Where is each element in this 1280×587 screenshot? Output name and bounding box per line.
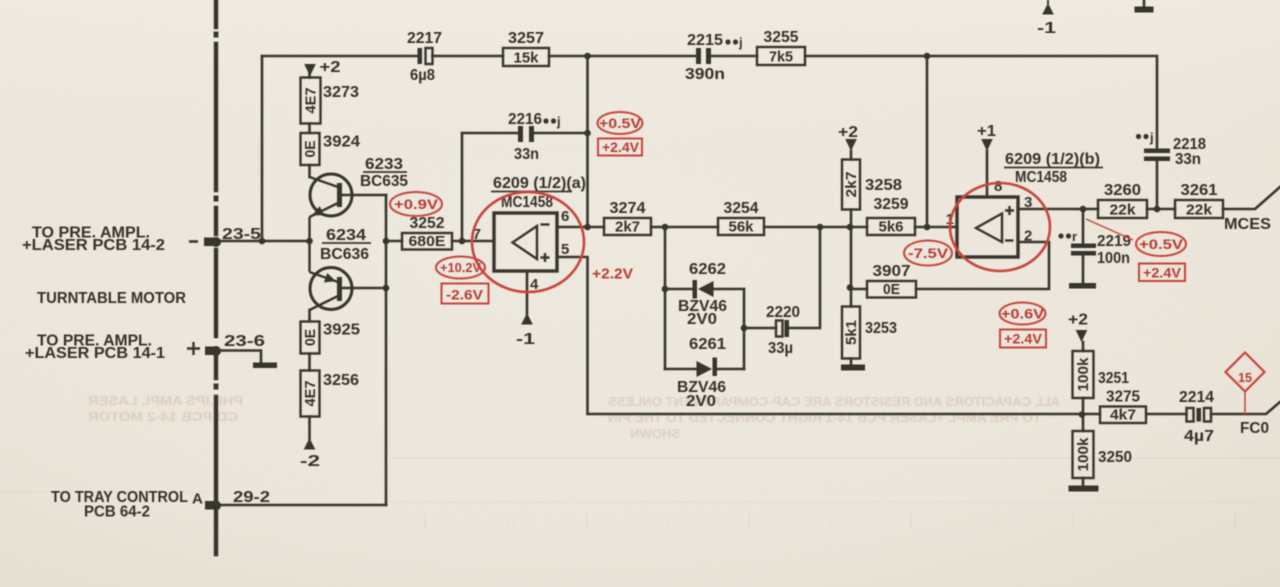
svg-text:22k: 22k	[1186, 202, 1213, 219]
svg-text:SHOWN: SHOWN	[630, 426, 680, 441]
svg-text:4k7: 4k7	[1110, 407, 1136, 424]
resistor 3256 4E7	[301, 371, 360, 417]
svg-text:+2.4V: +2.4V	[602, 139, 640, 155]
svg-text:5k6: 5k6	[879, 219, 904, 236]
svg-text:23-6: 23-6	[224, 333, 265, 350]
transistor 6234 BC636	[310, 241, 353, 310]
wire 0E stub	[851, 288, 867, 291]
wire 2219 stems	[1082, 209, 1085, 283]
resistor 3273 4E7	[301, 78, 360, 124]
capacitor 2214 4u7	[1179, 389, 1214, 445]
svg-text:3925: 3925	[323, 322, 360, 339]
svg-text:3260: 3260	[1104, 182, 1141, 199]
wire diode loop right	[743, 289, 746, 369]
svg-text:2219: 2219	[1097, 233, 1131, 250]
svg-text:3250: 3250	[1098, 449, 1132, 466]
svg-text:0E: 0E	[302, 141, 319, 158]
svg-text:3253: 3253	[865, 320, 897, 337]
wire	[805, 56, 1157, 149]
svg-text:390n: 390n	[685, 66, 725, 83]
wire 3258 stems	[850, 151, 853, 227]
test point diamond 15	[1226, 353, 1265, 392]
svg-text:12: 12	[666, 517, 678, 529]
svg-text:6234: 6234	[326, 227, 366, 244]
svg-text:2V0: 2V0	[686, 393, 716, 410]
capacitor 2217 6u8	[407, 30, 442, 84]
resistor 3253 5k1	[842, 307, 897, 359]
resistor 3255 7k5	[757, 29, 805, 66]
resistor 3924 0E	[301, 133, 361, 165]
faint sheet frame lines	[0, 458, 1280, 528]
resistor 3259 5k6	[867, 196, 915, 236]
svg-text:3: 3	[1024, 194, 1032, 211]
resistor 3254 56k	[718, 200, 764, 236]
wire base stub 6234	[342, 287, 386, 290]
op-amp U6209a MC1458	[473, 175, 586, 293]
svg-text:+0.9V: +0.9V	[394, 196, 439, 212]
wire 2220 tap	[744, 327, 776, 330]
resistor 3250 100k	[1073, 431, 1133, 478]
wire diode loop bottom	[665, 368, 697, 371]
voltage +0.9V	[390, 192, 442, 216]
wire	[714, 288, 744, 291]
red leader to +0.5V	[1086, 219, 1133, 240]
svg-text:5k1: 5k1	[843, 320, 860, 345]
svg-text:-2.6V: -2.6V	[446, 287, 484, 303]
svg-text:8: 8	[994, 178, 1002, 195]
resistor 3257 15k	[503, 30, 549, 67]
svg-text:3274: 3274	[610, 200, 646, 217]
svg-text:+0.6V: +0.6V	[1001, 306, 1045, 322]
resistor 3261 22k	[1175, 182, 1223, 219]
svg-text:6: 6	[561, 208, 569, 225]
ground at 23-6	[253, 363, 277, 369]
svg-text:BC635: BC635	[360, 173, 408, 190]
svg-text:6262: 6262	[689, 261, 726, 278]
svg-text:33n: 33n	[1175, 151, 1201, 168]
resistor 3258 2k7	[842, 160, 902, 210]
power -2 below 3256	[304, 438, 316, 450]
svg-text:680E: 680E	[409, 233, 446, 250]
wire 2216 feedback loop	[462, 133, 518, 241]
svg-text:+2: +2	[1068, 312, 1088, 329]
wire main right 1	[651, 226, 718, 229]
wire	[534, 132, 588, 135]
voltage +0.6V	[1000, 303, 1046, 325]
svg-text:0E: 0E	[302, 329, 319, 346]
svg-text:33n: 33n	[514, 146, 539, 163]
diode 6261 BZV46 2V0	[677, 336, 726, 410]
wire pin3 output	[1018, 208, 1098, 211]
svg-text:2k7: 2k7	[843, 172, 860, 198]
svg-text:2216: 2216	[508, 111, 542, 128]
power -1 top right	[1047, 0, 1049, 4]
svg-text:15: 15	[1238, 370, 1252, 385]
resistor 3260 22k	[1098, 182, 1147, 219]
resistor 3274 2k7	[604, 200, 651, 236]
ground top right	[1135, 7, 1154, 13]
wire 680E to pin7	[452, 240, 494, 243]
svg-text:+2: +2	[838, 124, 858, 141]
wire base vertical	[385, 195, 388, 505]
wire motor line from 23-5	[220, 240, 310, 243]
wire	[1147, 208, 1175, 211]
svg-text:3259: 3259	[874, 196, 909, 213]
svg-text:j: j	[1149, 130, 1154, 145]
svg-text:j: j	[738, 35, 743, 50]
power -1 below op-amp a	[521, 313, 533, 325]
svg-text:BC636: BC636	[320, 246, 369, 263]
svg-text:FC0: FC0	[1240, 420, 1269, 437]
svg-text:A: A	[192, 491, 203, 508]
wire 3273 stems	[308, 72, 311, 177]
svg-text:0E: 0E	[883, 281, 900, 298]
terminal 23-6	[205, 346, 221, 356]
svg-text:100k: 100k	[1075, 357, 1092, 392]
wire diode loop top	[665, 288, 692, 291]
svg-text:+2: +2	[320, 59, 341, 76]
svg-text:6209 (1/2)(b): 6209 (1/2)(b)	[1005, 151, 1100, 168]
wire	[717, 368, 744, 371]
capacitor 2218 33n	[1136, 130, 1206, 168]
svg-text:2: 2	[1024, 228, 1032, 245]
wire MCES end	[1223, 187, 1280, 209]
terminal 23-5	[204, 237, 221, 247]
svg-text:7k5: 7k5	[769, 49, 793, 66]
wire main right 2	[764, 226, 867, 229]
svg-text:3275: 3275	[1106, 389, 1140, 406]
op-amp U6209b MC1458	[946, 151, 1103, 257]
svg-text:PHILIPS AMPL LASER: PHILIPS AMPL LASER	[87, 393, 243, 408]
svg-text:+2.2V: +2.2V	[592, 266, 633, 283]
voltage +10.2V	[436, 257, 485, 279]
svg-text:4E7: 4E7	[302, 381, 319, 407]
svg-text:23-5: 23-5	[222, 226, 261, 243]
svg-text:3273: 3273	[323, 84, 359, 101]
wire FC0 end	[1211, 402, 1280, 414]
wire top feedback line	[262, 55, 418, 58]
wire	[549, 55, 588, 58]
svg-text:4µ7: 4µ7	[1184, 428, 1214, 445]
svg-text:+2.4V: +2.4V	[1143, 265, 1182, 281]
svg-text:+0.5V: +0.5V	[599, 115, 642, 131]
svg-text:ALL CAPACITORS AND RESISTORS A: ALL CAPACITORS AND RESISTORS ARE CAP-COM…	[608, 394, 1060, 409]
svg-text:3258: 3258	[865, 177, 902, 194]
svg-text:r: r	[1072, 229, 1077, 244]
svg-text:2215: 2215	[687, 32, 723, 49]
svg-text:+LASER PCB 14-1: +LASER PCB 14-1	[25, 345, 165, 362]
wire left vertical	[261, 56, 264, 241]
capacitor 2216 33n	[508, 111, 561, 163]
wire main right 3	[915, 226, 957, 229]
svg-text:3251: 3251	[1098, 370, 1129, 387]
voltage +2.4V top	[598, 139, 642, 156]
voltage -2.6V	[442, 284, 489, 304]
svg-text:j: j	[556, 114, 561, 129]
svg-text:15: 15	[1152, 517, 1164, 529]
svg-text:22k: 22k	[1110, 202, 1137, 219]
red circle around op-amp a	[472, 192, 584, 292]
svg-text:3257: 3257	[508, 30, 544, 47]
svg-text:6µ8: 6µ8	[410, 67, 435, 84]
svg-text:6209 (1/2)(a): 6209 (1/2)(a)	[493, 175, 586, 192]
svg-text:3261: 3261	[1181, 182, 1218, 199]
svg-text:11: 11	[504, 517, 516, 529]
capacitor 2219 100n	[1058, 229, 1131, 267]
svg-text:3255: 3255	[764, 29, 799, 46]
wire pin4 stem	[526, 271, 529, 314]
svg-text:3924: 3924	[323, 134, 360, 151]
wire 2220 to main	[789, 227, 820, 328]
svg-text:29-2: 29-2	[233, 489, 270, 506]
svg-text:TURNTABLE MOTOR: TURNTABLE MOTOR	[37, 290, 186, 307]
wire 5k1 branch	[850, 227, 853, 365]
svg-text:-2: -2	[300, 453, 320, 470]
resistor 3251 100k	[1073, 351, 1130, 398]
ground below 3250	[1069, 486, 1099, 492]
resistor 3925 0E	[301, 322, 361, 354]
svg-text:100n: 100n	[1097, 250, 1130, 267]
wire pin6 to 3274	[557, 226, 604, 229]
wire 0E to pin2	[916, 242, 1049, 289]
voltage +2.4V right	[1139, 264, 1185, 282]
capacitor 2220 33u	[766, 304, 800, 357]
wire pin1 vertical	[926, 56, 929, 227]
power +2 top of 3273	[304, 64, 316, 76]
svg-text:2214: 2214	[1179, 389, 1214, 406]
svg-text:2217: 2217	[407, 30, 442, 47]
svg-text:6261: 6261	[689, 336, 726, 353]
svg-text:56k: 56k	[729, 219, 755, 236]
wire base node to 680E	[386, 240, 402, 243]
svg-text:MC1458: MC1458	[1015, 169, 1067, 186]
wire output node vertical	[586, 56, 589, 227]
svg-text:2k7: 2k7	[615, 219, 640, 236]
svg-text:6233: 6233	[365, 156, 403, 173]
resistor 3275 4k7	[1100, 389, 1146, 424]
svg-text:TO PRE AMPL +LASER PCB 14-1 RI: TO PRE AMPL +LASER PCB 14-1 RIGHT CONNEC…	[608, 410, 1041, 425]
wire base stub 6233	[342, 194, 386, 197]
svg-text:+1: +1	[977, 123, 996, 140]
voltage +0.5V right	[1136, 232, 1186, 256]
voltage +0.5V top	[598, 112, 643, 134]
diode 6262 BZV46 2V0	[678, 261, 727, 328]
wire 29-2 tray line	[220, 504, 386, 507]
svg-text:15k: 15k	[514, 50, 540, 67]
wire diode branch vertical	[664, 227, 667, 369]
svg-text:MC1458: MC1458	[501, 194, 553, 211]
ground below 5k1	[841, 365, 865, 371]
resistor 3907 0E	[867, 263, 916, 298]
svg-text:2V0: 2V0	[687, 311, 717, 328]
wire pin8 stem	[986, 151, 989, 197]
wire 2218 lower stem	[1156, 161, 1159, 209]
svg-text:-1: -1	[1037, 20, 1056, 37]
wire	[711, 55, 757, 58]
capacitor 2215 390n	[685, 32, 743, 83]
svg-text:+LASER PCB 14-2: +LASER PCB 14-2	[22, 237, 165, 254]
ground below 2219	[1069, 283, 1096, 289]
svg-text:33µ: 33µ	[768, 340, 793, 357]
voltage -7.5V	[904, 241, 952, 266]
svg-text:5: 5	[561, 241, 569, 258]
wire	[433, 55, 504, 58]
svg-text:-7.5V: -7.5V	[908, 245, 949, 261]
wire pin5 down to FC0 line	[557, 257, 1100, 414]
svg-text:+10.2V: +10.2V	[440, 261, 482, 275]
terminal 29-2 A	[205, 501, 221, 511]
wire top-right ground stem	[1143, 0, 1146, 7]
board edge dash-dot line	[214, 0, 218, 554]
svg-text:+2.4V: +2.4V	[1004, 331, 1043, 347]
resistor 3252 680E	[402, 215, 452, 250]
svg-text:2220: 2220	[766, 304, 800, 321]
svg-text:PCB 64-2: PCB 64-2	[84, 504, 150, 521]
svg-text:14: 14	[989, 517, 1002, 529]
svg-text:100k: 100k	[1075, 437, 1092, 472]
voltage +2.4V mid	[1000, 330, 1046, 348]
svg-text:3254: 3254	[724, 200, 759, 217]
svg-text:13: 13	[828, 517, 840, 529]
wire	[588, 55, 697, 58]
red circle around op-amp b	[950, 183, 1050, 271]
wire 100k stems	[1082, 342, 1085, 486]
svg-text:MCES: MCES	[1224, 216, 1271, 233]
svg-text:3256: 3256	[323, 372, 359, 389]
transistor 6233 BC635	[310, 174, 353, 241]
svg-text:4E7: 4E7	[303, 88, 320, 114]
wire	[1147, 413, 1187, 416]
svg-text:3252: 3252	[410, 215, 445, 232]
svg-text:-1: -1	[516, 331, 535, 348]
wire 23-6 to ground	[220, 351, 261, 363]
svg-text:3907: 3907	[873, 263, 911, 280]
wire 3925 stems	[308, 310, 311, 439]
svg-text:+0.5V: +0.5V	[1139, 236, 1184, 252]
